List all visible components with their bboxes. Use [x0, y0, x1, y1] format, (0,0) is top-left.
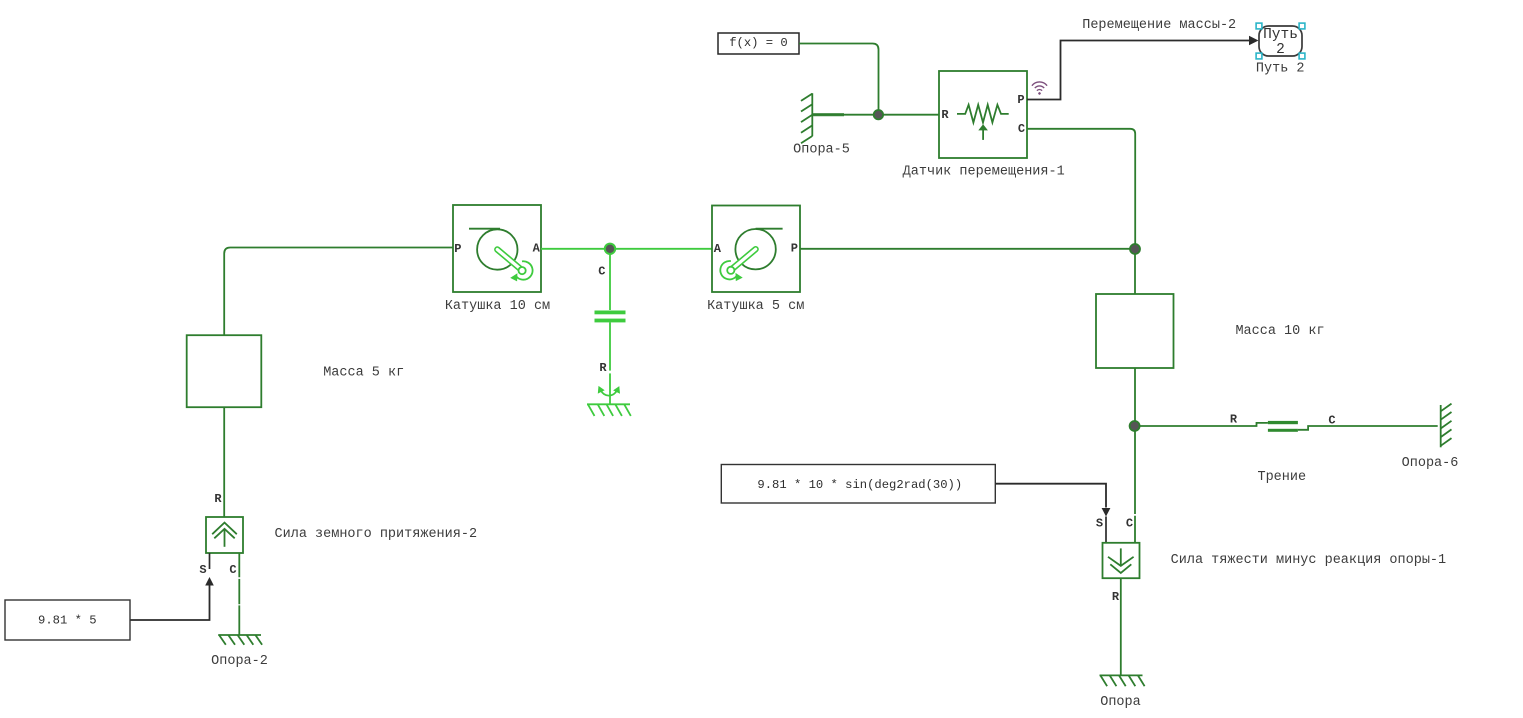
expression box 9.81 * 5: [5, 600, 130, 640]
svg-text:Путь 2: Путь 2: [1256, 62, 1305, 77]
friction Трение: [1139, 413, 1437, 432]
svg-text:C: C: [229, 563, 236, 577]
svg-text:Масса 10 кг: Масса 10 кг: [1235, 324, 1324, 339]
svg-text:S: S: [199, 563, 206, 577]
wire force F2 R to ground: [1120, 578, 1122, 675]
svg-text:C: C: [1126, 517, 1133, 531]
port stub Опора-5: [813, 113, 844, 116]
svg-text:R: R: [1112, 590, 1120, 604]
svg-text:Масса 5 кг: Масса 5 кг: [323, 366, 404, 381]
signal wire sensor P to scope Путь 2: [1027, 41, 1250, 100]
svg-text:Катушка 10 см: Катушка 10 см: [445, 299, 550, 314]
wire Опора-5 to node A: [812, 114, 874, 116]
svg-text:Сила земного притяжения-2: Сила земного притяжения-2: [275, 527, 478, 542]
svg-text:Катушка 5 см: Катушка 5 см: [707, 299, 804, 314]
svg-text:Сила тяжести минус реакция опо: Сила тяжести минус реакция опоры-1: [1171, 553, 1446, 568]
svg-text:P: P: [454, 242, 461, 256]
wire mass M2 to node D: [1134, 368, 1136, 422]
svg-text:R: R: [599, 361, 607, 375]
svg-text:Путь: Путь: [1263, 27, 1298, 43]
svg-text:Опора: Опора: [1100, 695, 1141, 710]
svg-text:P: P: [1017, 93, 1024, 107]
node C junction: [1130, 244, 1140, 254]
support Опора-6 wall: [1441, 404, 1452, 448]
wire coil K2 P to node C: [800, 248, 1130, 250]
wire mass M1 to force F1 R: [223, 407, 225, 517]
svg-text:R: R: [941, 108, 949, 122]
scope Путь 2: [1259, 26, 1302, 58]
svg-text:C: C: [1328, 414, 1335, 428]
svg-text:R: R: [1230, 413, 1238, 427]
svg-text:P: P: [791, 242, 798, 256]
displacement sensor U2 Датчик перемещения-1: [939, 71, 1027, 158]
wire force F1 C to ground: [238, 553, 240, 635]
expression box 9.81 * 10 * sin(deg2rad(30)): [721, 465, 995, 504]
node D junction: [1130, 421, 1140, 431]
coil Катушка 5 см: [712, 206, 800, 293]
svg-text:C: C: [1018, 122, 1025, 136]
wire node B to coil K2 A: [615, 248, 712, 250]
coil Катушка 10 см: [453, 205, 541, 292]
svg-text:9.81 * 10 * sin(deg2rad(30)): 9.81 * 10 * sin(deg2rad(30)): [757, 478, 962, 492]
crank: [731, 249, 755, 269]
signal wire to force F2 port S: [996, 484, 1107, 508]
constraint block U1 f(x)=0: [718, 33, 799, 54]
svg-text:A: A: [533, 242, 541, 256]
svg-text:A: A: [714, 242, 722, 256]
svg-text:S: S: [1096, 517, 1103, 531]
rotational arrows: [601, 390, 617, 395]
wire coil K1 A to node B: [541, 248, 605, 250]
wifi icon: [1032, 82, 1047, 95]
force source Сила тяжести минус реакция опоры-1: [1096, 431, 1140, 604]
svg-text:R: R: [214, 492, 222, 506]
rotational ground: [587, 404, 631, 416]
svg-text:f(x) = 0: f(x) = 0: [729, 36, 788, 50]
mass Масса 10 кг: [1096, 294, 1174, 368]
force source Сила земного притяжения-2: [199, 517, 243, 577]
svg-text:Трение: Трение: [1257, 470, 1306, 485]
support Опора-5 wall: [801, 93, 812, 143]
svg-text:Опора-6: Опора-6: [1402, 456, 1459, 471]
svg-text:Перемещение массы-2: Перемещение массы-2: [1082, 18, 1236, 33]
svg-text:Опора-2: Опора-2: [211, 654, 268, 669]
support Опора-2 ground: [218, 635, 262, 645]
svg-text:C: C: [598, 265, 605, 279]
wire node A to sensor R: [883, 114, 939, 116]
node A junction: [874, 110, 883, 119]
rotational spring C-R: [595, 254, 626, 405]
svg-text:9.81 * 5: 9.81 * 5: [38, 614, 97, 628]
arrowhead into scope: [1249, 36, 1259, 45]
wire mass M1 to coil K1 port P: [224, 248, 453, 336]
support Опора ground: [1100, 675, 1145, 686]
svg-text:2: 2: [1276, 42, 1285, 58]
mass Масса 5 кг: [187, 335, 262, 407]
node B junction: [605, 244, 615, 254]
svg-text:Датчик перемещения-1: Датчик перемещения-1: [903, 164, 1065, 179]
svg-text:Опора-5: Опора-5: [793, 143, 850, 158]
crank: [497, 250, 521, 270]
wire f(x)=0 output to node A: [799, 44, 879, 111]
wire sensor C to node C: [1027, 129, 1135, 245]
signal wire 9.81*5 to force F1 port S: [209, 553, 211, 569]
selection handles: [1256, 23, 1305, 59]
wire node C to mass M2: [1134, 254, 1136, 295]
